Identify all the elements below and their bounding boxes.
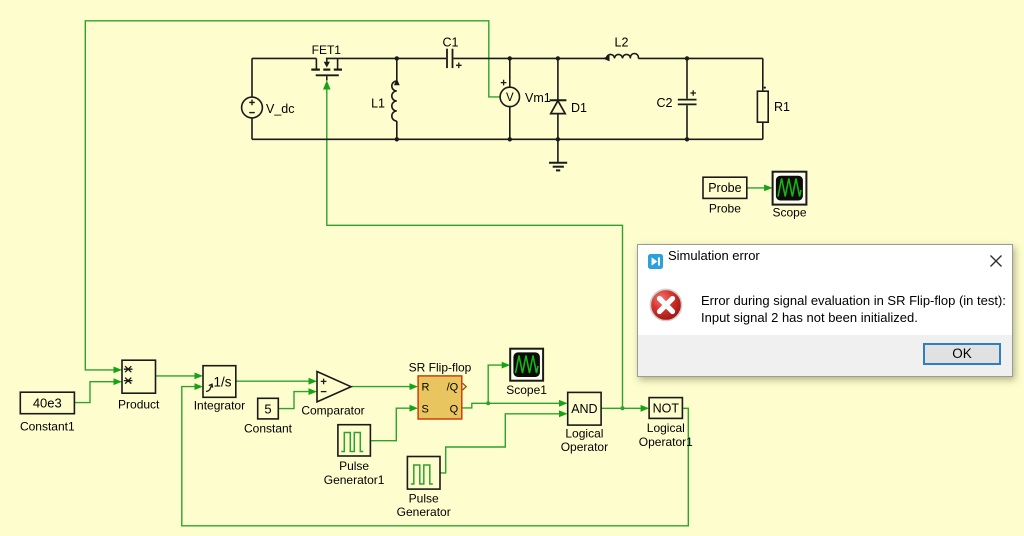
svg-text:AND: AND <box>571 402 597 416</box>
wire Pulse Generator1 to SR Flip-flop S input <box>370 408 410 441</box>
svg-text:Operator: Operator <box>561 440 608 454</box>
svg-text:SR Flip-flop: SR Flip-flop <box>409 361 472 375</box>
node C2 bottom <box>685 137 689 141</box>
svg-text:1/s: 1/s <box>213 374 231 389</box>
svg-text:NOT: NOT <box>653 402 680 416</box>
scope1 waveform <box>516 356 539 374</box>
transistor FET1 <box>315 58 317 68</box>
svg-text:Operator1: Operator1 <box>639 435 693 449</box>
svg-text:Integrator: Integrator <box>194 398 245 412</box>
svg-text:Constant1: Constant1 <box>20 420 75 434</box>
svg-text:L1: L1 <box>371 97 385 111</box>
red error icon <box>649 288 683 327</box>
inductor L2 <box>607 54 639 59</box>
block Constant <box>258 398 279 419</box>
block Constant1 <box>20 392 74 414</box>
svg-text:V_dc: V_dc <box>266 102 295 116</box>
node junction on AND-NOT wire <box>621 406 625 410</box>
block AND <box>568 392 601 425</box>
svg-text:Scope1: Scope1 <box>506 383 547 397</box>
svg-text:Vm1: Vm1 <box>525 91 551 105</box>
block Scope1 <box>510 349 543 381</box>
block Pulse Generator1 <box>338 425 371 456</box>
svg-text:Pulse: Pulse <box>409 492 439 506</box>
block SR Flip-flop <box>418 376 462 419</box>
wire top rail FET1 to C1 <box>326 57 446 59</box>
wire Vm1 measurement to Product input 1 <box>85 21 500 370</box>
voltmeter Vm1 <box>500 87 519 106</box>
block Integrator <box>203 366 236 398</box>
node L1 top <box>395 56 399 60</box>
wire Integrator to Comparator plus input <box>236 380 310 382</box>
svg-text:Logical: Logical <box>647 421 685 435</box>
svg-text:Product: Product <box>118 397 160 411</box>
svg-text:Pulse: Pulse <box>339 459 369 473</box>
capacitor C2 <box>686 58 688 98</box>
node D1 top <box>556 56 560 60</box>
dialog title bar <box>638 245 1012 273</box>
comparator <box>317 372 351 402</box>
scope waveform <box>778 179 801 197</box>
node Vm1 top <box>508 56 512 60</box>
svg-text:Generator1: Generator1 <box>324 473 385 487</box>
wire gate drive from junction to FET1 gate <box>327 90 623 409</box>
svg-text:Generator: Generator <box>397 505 451 519</box>
svg-text:Comparator: Comparator <box>301 403 364 417</box>
node junction on Q wire <box>486 401 490 405</box>
wire V_dc top stub <box>251 58 253 97</box>
svg-text:Logical: Logical <box>565 426 603 440</box>
node D1 bottom <box>556 137 560 141</box>
wire Product to Integrator input 1 <box>156 375 196 377</box>
wire Comparator to SR Flip-flop R input <box>351 386 411 388</box>
wire SR Flip-flop Q to AND input 1 <box>462 403 560 408</box>
svg-text:C2: C2 <box>657 96 673 110</box>
svg-text:/Q: /Q <box>447 382 459 394</box>
svg-text:Q: Q <box>450 404 459 416</box>
svg-text:D1: D1 <box>571 101 587 115</box>
error dialog window <box>637 244 1013 377</box>
svg-text:C1: C1 <box>443 36 459 50</box>
node Vm1 bottom <box>508 137 512 141</box>
product asterisk 2 <box>124 378 133 384</box>
svg-text:V: V <box>506 92 514 104</box>
inductor L1 <box>396 58 398 81</box>
integrator reset glyph <box>206 384 213 391</box>
svg-text:R: R <box>422 382 430 394</box>
svg-text:Probe: Probe <box>708 181 741 195</box>
wire NOT feedback to Integrator reset input <box>182 387 689 526</box>
block NOT <box>649 398 682 419</box>
svg-text:Constant: Constant <box>244 422 293 436</box>
wire top rail C1 to L2 <box>453 57 606 59</box>
wire AND output to NOT input <box>601 407 641 409</box>
wire top rail left of FET1 <box>252 57 316 59</box>
block Scope <box>773 172 807 205</box>
svg-text:FET1: FET1 <box>312 43 342 57</box>
wire Pulse Generator to AND input 2 <box>440 414 560 473</box>
wire V_dc bottom stub <box>251 118 253 139</box>
voltage source V_dc <box>242 97 263 118</box>
svg-text:40e3: 40e3 <box>33 395 62 410</box>
resistor R1 <box>762 58 764 91</box>
wire branch to Scope1 <box>488 365 502 403</box>
svg-text:L2: L2 <box>615 36 629 50</box>
pulse waveform 2 <box>411 465 433 484</box>
capacitor C1 <box>446 49 448 68</box>
svg-text:S: S <box>422 404 429 416</box>
dialog footer with OK button <box>638 335 1012 376</box>
pulse waveform 1 <box>341 433 363 452</box>
svg-text:Probe: Probe <box>709 201 741 215</box>
wire bottom rail <box>252 138 763 140</box>
diode D1 <box>557 58 559 100</box>
block Pulse Generator <box>407 457 440 490</box>
ground <box>557 139 559 162</box>
schematic svg content <box>20 21 807 526</box>
node C2 top <box>685 56 689 60</box>
wire Constant to Comparator minus input <box>278 392 309 409</box>
block Product <box>122 360 156 393</box>
dialog body <box>638 272 1012 274</box>
SR unconnected /Q marker <box>463 383 467 390</box>
node L1 bottom <box>395 137 399 141</box>
wire Probe to Scope <box>747 187 765 189</box>
wire Constant1 to Product input 2 <box>74 382 114 403</box>
wire top rail L2 to R1 corner <box>638 57 763 59</box>
svg-text:R1: R1 <box>774 100 790 114</box>
svg-text:5: 5 <box>264 401 271 416</box>
svg-text:Scope: Scope <box>772 206 806 220</box>
block Probe <box>703 177 747 198</box>
product asterisk 1 <box>124 366 133 372</box>
